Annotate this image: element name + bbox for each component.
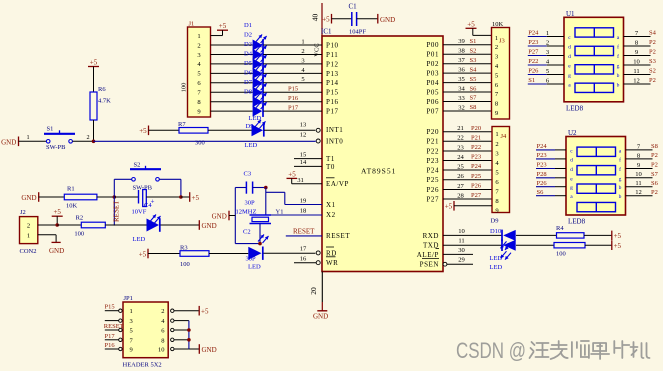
wires P20-P27 <box>443 132 492 199</box>
svg-text:16: 16 <box>300 255 307 262</box>
net label RESET <box>293 228 315 236</box>
U1 left pins <box>528 30 564 85</box>
wire J1 pin7 to D6 <box>211 91 253 93</box>
power +5 for R7 <box>139 126 148 136</box>
svg-text:P16: P16 <box>326 98 339 106</box>
svg-text:LED: LED <box>248 263 261 270</box>
svg-text:100: 100 <box>74 230 84 237</box>
wire J1 pin5 to D4 <box>211 72 253 74</box>
svg-text:GND: GND <box>49 247 64 255</box>
LED D5 <box>253 72 267 88</box>
resistor R3 <box>180 244 209 267</box>
svg-text:22: 22 <box>457 135 464 142</box>
wire D8 to IC P17 <box>263 110 322 112</box>
wire PSEN <box>447 257 473 265</box>
junction crystal bottom <box>258 242 262 246</box>
svg-text:8: 8 <box>161 337 164 344</box>
svg-text:S1: S1 <box>47 126 54 133</box>
label HEADER 5X2 <box>123 361 162 368</box>
svg-text:2: 2 <box>27 223 30 230</box>
junction J2 +5 <box>55 223 59 227</box>
svg-text:D9: D9 <box>491 217 499 224</box>
svg-text:4.7K: 4.7K <box>98 98 111 105</box>
svg-text:14: 14 <box>300 159 307 166</box>
svg-text:WR: WR <box>326 259 338 267</box>
svg-text:P24: P24 <box>528 30 539 37</box>
LED D12 <box>246 247 263 271</box>
svg-text:T0: T0 <box>326 163 335 171</box>
LED D6 <box>253 82 267 98</box>
svg-text:P03: P03 <box>426 70 439 78</box>
wire LED to RD <box>264 252 316 254</box>
svg-text:19: 19 <box>300 197 307 204</box>
svg-text:P2: P2 <box>649 39 656 46</box>
wire RESET to IC <box>286 235 322 237</box>
svg-text:+5: +5 <box>192 194 200 202</box>
junction C3/X1 <box>264 186 268 190</box>
svg-text:32: 32 <box>458 104 465 111</box>
IC pin numbers 1-5 <box>301 38 305 83</box>
wire R7 to D9 <box>208 129 253 131</box>
svg-text:38: 38 <box>458 48 465 55</box>
svg-text:GND: GND <box>212 213 227 221</box>
svg-text:+5: +5 <box>90 59 98 67</box>
svg-text:d: d <box>568 45 571 51</box>
wire J1 pin2 to D1 <box>211 44 253 46</box>
wire R5 to +5 <box>585 244 612 246</box>
power +5 for R3 <box>139 249 148 259</box>
svg-text:P22: P22 <box>426 147 439 155</box>
svg-text:AT89S51: AT89S51 <box>361 167 396 176</box>
svg-text:P2: P2 <box>649 77 656 84</box>
svg-text:D8: D8 <box>244 88 252 95</box>
wire C3 to crystal <box>265 188 267 216</box>
svg-text:30P: 30P <box>245 200 256 207</box>
svg-text:GND: GND <box>313 313 328 321</box>
svg-text:LED: LED <box>490 264 503 271</box>
svg-text:J3: J3 <box>499 38 505 45</box>
svg-text:g: g <box>617 64 620 70</box>
svg-text:S2: S2 <box>134 161 141 168</box>
connector JP1 body <box>123 295 168 358</box>
svg-text:+5: +5 <box>201 308 209 316</box>
designator IC1 <box>321 28 332 36</box>
svg-text:1: 1 <box>27 232 30 239</box>
svg-text:P23: P23 <box>537 162 547 169</box>
svg-text:P24: P24 <box>471 163 482 170</box>
pin name VCC rotated <box>314 43 321 56</box>
wire +5 to J4 pin9 <box>454 205 492 207</box>
wires P00-P07 <box>443 45 492 111</box>
svg-text:PSEN: PSEN <box>420 261 439 269</box>
svg-text:P24: P24 <box>537 143 548 150</box>
wire J1 pin3 to D2 <box>211 53 253 55</box>
wire +5 to C1 <box>332 18 352 20</box>
ground pin 20 <box>313 311 328 321</box>
svg-text:S4: S4 <box>649 30 657 37</box>
svg-text:GND: GND <box>202 222 217 230</box>
svg-text:d: d <box>570 167 573 173</box>
part name AT89S51 <box>361 167 396 176</box>
wire pin 20 <box>321 272 323 311</box>
svg-text:+5: +5 <box>614 232 622 240</box>
svg-text:R4: R4 <box>556 225 564 232</box>
svg-text:2: 2 <box>161 308 164 315</box>
wire D4 to IC P13 <box>263 72 322 74</box>
svg-text:S6: S6 <box>537 189 545 196</box>
wire R3 to LED <box>209 253 248 255</box>
svg-text:GND: GND <box>380 16 395 24</box>
svg-text:30P: 30P <box>246 255 257 262</box>
svg-text:P17: P17 <box>288 104 299 111</box>
wire S1 to node <box>73 134 94 141</box>
power +5 J3 <box>466 20 477 35</box>
svg-text:P25: P25 <box>471 173 481 180</box>
svg-text:P2: P2 <box>651 162 658 169</box>
P2 pin numbers and net labels <box>457 125 482 199</box>
power +5 EA/VP <box>287 171 298 184</box>
resistor R6 <box>90 86 111 120</box>
ground J2 pin1 <box>49 242 64 254</box>
svg-text:29: 29 <box>458 257 465 264</box>
wire ALE <box>443 247 473 255</box>
pin number 20 <box>309 287 318 295</box>
svg-text:S2: S2 <box>649 68 656 75</box>
svg-text:5: 5 <box>130 328 133 335</box>
designator J1 <box>189 21 195 28</box>
svg-text:+5: +5 <box>288 171 296 179</box>
svg-text:2: 2 <box>495 44 498 51</box>
watermark CSDN <box>456 338 650 363</box>
wire GND to S1 <box>19 134 47 141</box>
svg-text:13: 13 <box>300 122 307 129</box>
svg-text:+5: +5 <box>614 242 622 250</box>
svg-text:S2: S2 <box>470 47 477 54</box>
ground top <box>378 14 395 24</box>
J4 pin numbers <box>495 131 499 214</box>
capacitor C4 10VF <box>132 190 155 216</box>
connector J2 body <box>20 209 38 255</box>
svg-text:P27: P27 <box>426 195 439 203</box>
LED D12 arrows/symbol <box>258 235 269 244</box>
svg-text:11: 11 <box>633 68 639 75</box>
svg-text:31: 31 <box>297 177 304 184</box>
net label RESET vertical <box>112 200 120 222</box>
svg-text:J4: J4 <box>501 133 508 140</box>
wire J2 pin1 <box>38 235 56 242</box>
net label P17 JP1 <box>105 333 116 340</box>
LED D10 <box>490 228 516 250</box>
7-segment display U2 body <box>566 129 626 215</box>
IC right pin names <box>417 41 439 268</box>
svg-text:X2: X2 <box>326 211 336 219</box>
power +5 J4 <box>445 201 454 211</box>
svg-text:S7: S7 <box>651 171 659 178</box>
svg-text:P10: P10 <box>326 41 339 49</box>
svg-text:D7: D7 <box>244 79 253 86</box>
ground crystal 1 <box>212 211 236 221</box>
LED D2 <box>253 44 267 60</box>
svg-text:RXD: RXD <box>423 232 439 240</box>
svg-text:P15: P15 <box>288 85 298 92</box>
svg-text:11: 11 <box>458 238 464 245</box>
svg-text:ALE/P: ALE/P <box>417 251 439 259</box>
svg-text:25: 25 <box>457 163 464 170</box>
svg-text:T1: T1 <box>326 155 335 163</box>
svg-text:S7: S7 <box>470 95 478 102</box>
svg-text:P21: P21 <box>471 135 481 142</box>
pin bubble PSEN <box>443 262 447 266</box>
svg-text:10: 10 <box>635 171 642 178</box>
svg-text:1: 1 <box>301 38 304 45</box>
pin bubble INT0 <box>300 132 320 143</box>
svg-text:37: 37 <box>458 57 465 64</box>
wire EA/VP <box>292 177 322 184</box>
svg-text:S8: S8 <box>651 143 658 150</box>
svg-text:P20: P20 <box>471 125 481 132</box>
svg-text:30: 30 <box>458 247 465 254</box>
svg-text:36: 36 <box>458 67 465 74</box>
U2 right pins <box>626 143 659 196</box>
wire RXD <box>443 228 502 236</box>
LED D1 <box>253 35 267 51</box>
svg-text:17: 17 <box>300 246 307 253</box>
svg-text:P2: P2 <box>651 189 658 196</box>
svg-text:P26: P26 <box>528 68 539 75</box>
switch S1 <box>44 126 75 151</box>
svg-text:U2: U2 <box>568 129 577 137</box>
ground J2 LED <box>199 220 216 230</box>
svg-text:X1: X1 <box>326 201 336 209</box>
svg-text:21: 21 <box>457 125 464 132</box>
svg-text:f: f <box>619 166 621 173</box>
svg-text:P15: P15 <box>105 304 115 311</box>
svg-text:LED: LED <box>245 142 258 149</box>
svg-text:R2: R2 <box>76 214 84 221</box>
wire pin 40 VCC <box>321 3 323 36</box>
wire R6 to node <box>93 120 95 141</box>
U2 left pins <box>536 143 566 196</box>
net label P15 JP1 <box>105 304 115 311</box>
wire D5 to IC P14 <box>263 82 322 84</box>
svg-text:100: 100 <box>181 83 188 93</box>
svg-text:S4: S4 <box>470 66 478 73</box>
svg-text:P22: P22 <box>471 144 481 151</box>
resistor R7 <box>178 121 208 146</box>
svg-text:RD: RD <box>326 249 337 257</box>
svg-text:P20: P20 <box>426 128 439 136</box>
wire node to C4 <box>114 196 138 198</box>
svg-text:1: 1 <box>27 134 30 141</box>
svg-text:R1: R1 <box>67 186 75 193</box>
svg-text:P06: P06 <box>426 98 439 106</box>
svg-text:9: 9 <box>130 347 133 354</box>
ground R1 <box>21 192 38 202</box>
wire J1 pin1 <box>211 35 223 37</box>
power +5 J2 <box>52 208 63 225</box>
wire D6 to IC P15 <box>263 91 322 93</box>
resistor network J1 body <box>188 27 211 117</box>
svg-text:39: 39 <box>458 38 465 45</box>
svg-text:JP1: JP1 <box>124 295 133 302</box>
svg-text:D2: D2 <box>244 32 252 39</box>
power +5 for R6 <box>88 59 99 93</box>
svg-text:27: 27 <box>457 183 464 190</box>
wire T0 <box>294 159 322 166</box>
svg-text:D4: D4 <box>244 51 253 58</box>
pin bubble INT1 <box>300 122 320 133</box>
svg-text:+5: +5 <box>139 250 147 258</box>
svg-text:g: g <box>570 185 573 191</box>
svg-text:D6: D6 <box>244 69 253 76</box>
wire +5 to J3 pin1 <box>473 34 492 36</box>
svg-text:10: 10 <box>458 228 465 235</box>
7-segment display U1 body <box>564 10 624 102</box>
wire D9 to INT1 <box>264 129 315 131</box>
svg-text:P2: P2 <box>651 152 658 159</box>
svg-text:INT0: INT0 <box>326 137 343 145</box>
svg-text:RESET: RESET <box>326 232 350 240</box>
wire to +5 reset <box>181 196 190 198</box>
svg-text:12: 12 <box>300 132 307 139</box>
capacitor C1 <box>349 3 367 36</box>
svg-text:J2: J2 <box>20 209 26 216</box>
value 100 rotated <box>181 83 188 93</box>
svg-text:P23: P23 <box>528 39 538 46</box>
JP1 pin numbers <box>130 308 166 353</box>
LED D9 <box>245 120 266 149</box>
power +5 for J1 <box>217 22 228 35</box>
wire +5 to R3 <box>148 253 180 255</box>
svg-text:+5: +5 <box>467 20 475 28</box>
svg-text:b: b <box>617 83 620 89</box>
resistor network J3 body <box>492 21 510 119</box>
ground JP1 <box>199 344 216 354</box>
svg-text:+5: +5 <box>445 203 453 211</box>
wire TXD <box>443 238 502 246</box>
svg-text:GND: GND <box>202 346 217 354</box>
designator D9 text <box>491 217 499 224</box>
svg-text:INT1: INT1 <box>326 126 343 134</box>
svg-text:P11: P11 <box>326 51 338 59</box>
svg-text:P27: P27 <box>528 49 539 56</box>
wire R1 to node <box>97 196 114 198</box>
svg-text:D3: D3 <box>244 41 252 48</box>
wire R4 to +5 <box>584 234 612 236</box>
svg-text:1: 1 <box>546 30 549 37</box>
svg-text:S6: S6 <box>470 85 478 92</box>
svg-text:P01: P01 <box>426 51 439 59</box>
svg-text:2: 2 <box>495 141 498 148</box>
svg-text:P27: P27 <box>471 192 482 199</box>
wire +5node to R2 <box>57 224 81 226</box>
label LED8 U2 <box>568 218 586 226</box>
svg-text:D5: D5 <box>244 60 252 67</box>
svg-text:S5: S5 <box>470 76 477 83</box>
svg-text:23: 23 <box>457 144 464 151</box>
wire J2 pin2 <box>38 224 57 226</box>
wire T1 <box>294 151 322 158</box>
J1 pin numbers <box>197 33 201 116</box>
wire node to INT0 <box>94 140 316 142</box>
svg-text:28: 28 <box>457 192 464 199</box>
svg-text:1: 1 <box>130 308 133 315</box>
svg-text:2: 2 <box>546 39 549 46</box>
wire R2 to LED <box>105 224 146 226</box>
svg-text:1: 1 <box>495 35 498 42</box>
svg-text:10K: 10K <box>492 21 504 28</box>
svg-text:d: d <box>570 157 573 163</box>
svg-text:P13: P13 <box>326 70 339 78</box>
label LED8 U1 <box>566 105 584 113</box>
svg-text:P16: P16 <box>288 95 299 102</box>
ground S1 <box>1 137 18 147</box>
wire D11 to R5 <box>516 244 554 246</box>
IC left pin names <box>326 41 350 267</box>
P0 pin numbers and net labels <box>458 38 477 111</box>
svg-text:104PF: 104PF <box>349 29 366 36</box>
wire crystal left loop <box>235 188 260 244</box>
net label P16 JP1 <box>105 342 116 349</box>
wire D10 to R4 <box>516 234 557 236</box>
wire JP1 gnd bus <box>189 321 199 349</box>
svg-text:S3: S3 <box>470 57 477 64</box>
U1 right pins <box>624 30 657 85</box>
label LED array <box>249 115 262 122</box>
svg-text:b: b <box>619 194 622 200</box>
svg-text:24: 24 <box>457 154 464 161</box>
svg-text:P05: P05 <box>426 88 439 96</box>
svg-text:CON2: CON2 <box>20 248 37 255</box>
svg-text:C2: C2 <box>243 229 251 236</box>
svg-text:P22: P22 <box>528 58 538 65</box>
svg-text:2: 2 <box>301 48 304 55</box>
svg-text:P02: P02 <box>426 60 439 68</box>
J2 pin numbers <box>27 223 30 240</box>
op IC1 AT89S51 body <box>322 36 443 272</box>
svg-text:R3: R3 <box>180 244 188 251</box>
resistor network J4 body <box>492 127 510 213</box>
pin number 40 <box>311 14 320 22</box>
crystal Y1 <box>236 209 284 224</box>
svg-text:f: f <box>619 156 621 163</box>
svg-text:1: 1 <box>495 131 498 138</box>
svg-text:P23: P23 <box>471 154 481 161</box>
svg-text:b: b <box>617 73 620 79</box>
svg-text:P04: P04 <box>426 79 439 87</box>
svg-text:P00: P00 <box>426 41 439 49</box>
svg-text:g: g <box>619 176 622 182</box>
JP1 left pins <box>105 309 122 351</box>
svg-text:b: b <box>619 185 622 191</box>
wire GND to R1 <box>39 196 65 198</box>
resistor R2 <box>74 214 105 237</box>
net label P16 <box>288 95 299 102</box>
svg-text:100: 100 <box>180 261 190 268</box>
svg-text:S1: S1 <box>528 77 535 84</box>
svg-text:LED: LED <box>133 236 146 243</box>
svg-text:33: 33 <box>458 95 465 102</box>
svg-text:1: 1 <box>197 33 200 40</box>
power +5 R5 <box>612 240 622 250</box>
svg-text:D9: D9 <box>246 123 254 130</box>
wire D2 to IC P11 <box>263 53 322 55</box>
svg-text:S3: S3 <box>649 58 656 65</box>
LED D8 <box>253 101 267 117</box>
svg-text:P23: P23 <box>537 152 547 159</box>
wire +5 to R7 <box>149 129 180 131</box>
LED designators D1-D8 <box>244 22 253 95</box>
